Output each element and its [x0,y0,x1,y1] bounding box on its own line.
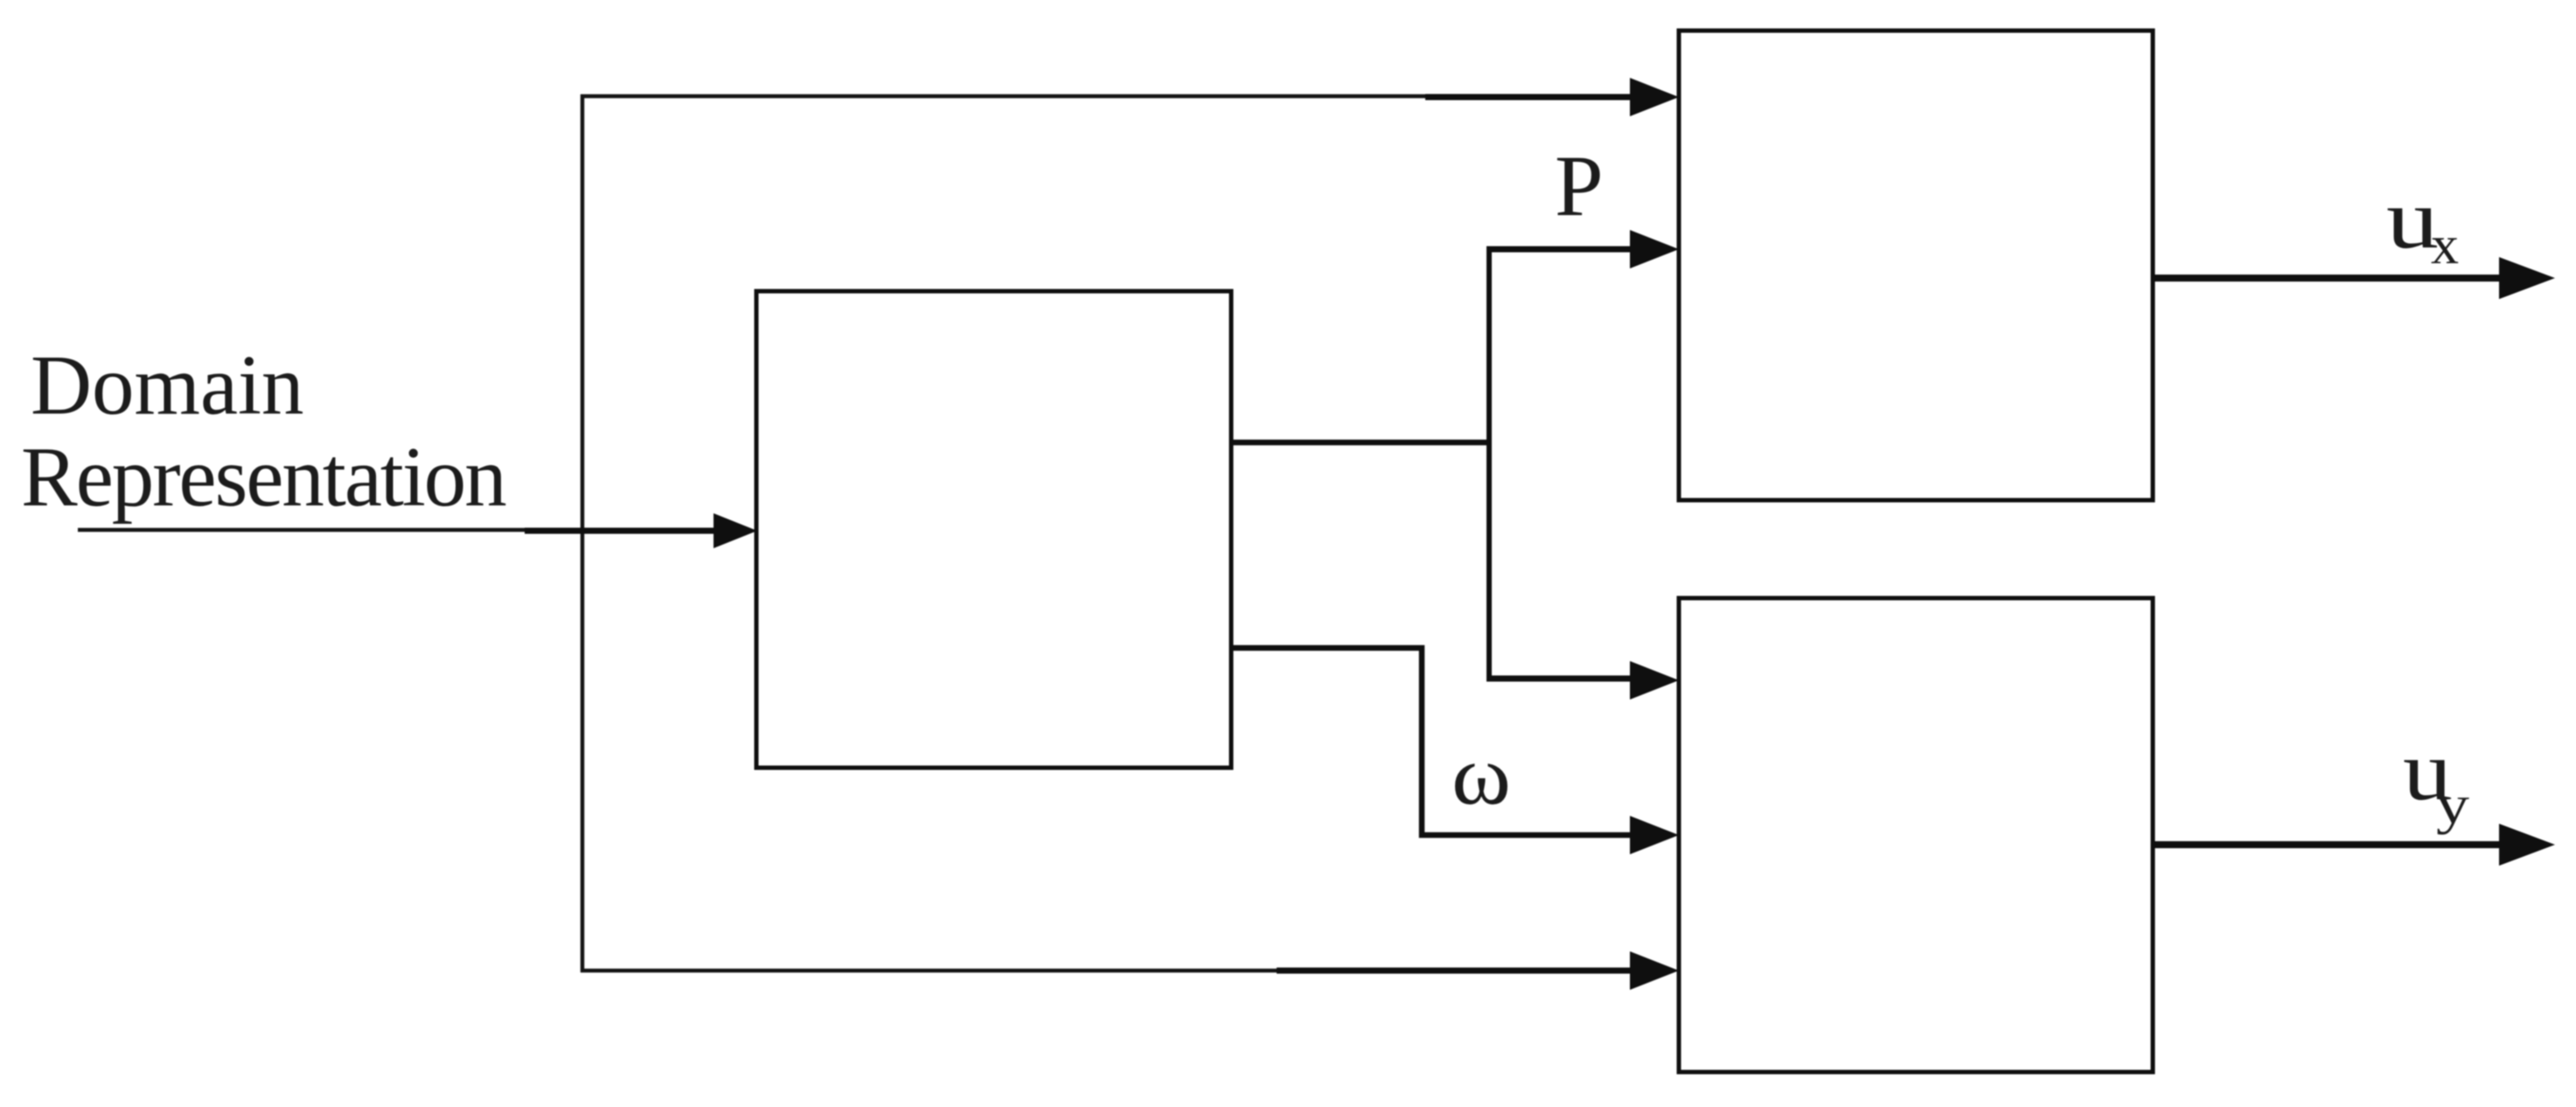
arrowhead into top block (top input) [1630,78,1679,116]
arrowhead P into top block [1630,230,1679,268]
svg-text:ω: ω [1452,728,1511,822]
wire: P stub from middle block [1231,440,1492,446]
arrowhead ux output [2499,257,2555,299]
svg-text:P: P [1555,137,1604,234]
block: bottom right (uy network) [1679,598,2153,1072]
wire: Domain Representation input [78,530,721,531]
wire: ux output [2153,275,2505,282]
wire: P vertical bus [1486,247,1492,681]
label: ux [2386,172,2459,275]
wire: top feed from outer loop to top block [581,96,1640,97]
wire: left vertical of outer loop [581,94,585,972]
wire: bottom feed from outer loop to bottom block [581,969,1640,973]
svg-text:x: x [2431,216,2459,275]
arrowhead into bottom block (lower input) [1630,951,1679,990]
block: top right (ux network) [1679,31,2153,500]
arrowhead into middle block [714,513,757,548]
label: uy [2403,724,2469,835]
wire: omega path from middle block to bottom block [1231,648,1635,835]
wire: P branch into top block [1486,247,1635,253]
wire: P branch into bottom block [1486,676,1635,682]
svg-text:Representation: Representation [21,430,506,524]
block: middle (hidden layer) [756,291,1231,768]
svg-text:y: y [2436,776,2469,835]
arrowhead omega into bottom block [1630,816,1679,854]
arrowhead uy output [2499,824,2555,866]
arrowhead P into bottom block [1630,661,1679,700]
svg-text:Domain: Domain [31,338,304,432]
wire: uy output [2153,841,2505,848]
